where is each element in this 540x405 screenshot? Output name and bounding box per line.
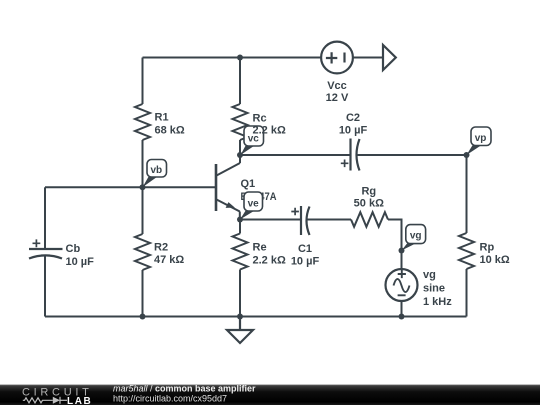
capacitor C1 (301, 206, 310, 235)
wire R1 column top (142, 58, 144, 105)
svg-text:10 µF: 10 µF (291, 256, 320, 268)
svg-text:Cb: Cb (66, 243, 81, 255)
svg-text:vg: vg (423, 269, 436, 281)
capacitor C2 (351, 139, 360, 171)
svg-text:10 µF: 10 µF (66, 256, 95, 268)
svg-text:Rc: Rc (253, 113, 267, 125)
svg-text:C1: C1 (298, 243, 312, 255)
junction bottom rail / vg source (399, 314, 405, 320)
svg-text:mar5hall / common base amplifi: mar5hall / common base amplifier (113, 383, 256, 393)
resistor Rc (233, 104, 248, 140)
node vc tag (241, 126, 264, 155)
resistor R1 (135, 104, 150, 140)
junction base node vb (140, 184, 146, 190)
svg-text:1 kHz: 1 kHz (423, 296, 452, 308)
resistor Rp (459, 233, 474, 269)
svg-text:R1: R1 (155, 112, 169, 124)
wire Re column bottom (239, 270, 241, 317)
logo mini circuit resistor and diode (23, 397, 67, 404)
svg-text:2.2 kΩ: 2.2 kΩ (253, 125, 286, 137)
svg-text:R2: R2 (154, 242, 168, 254)
svg-text:12 V: 12 V (326, 92, 349, 104)
resistor R2 (135, 234, 150, 270)
node vg tag (402, 225, 426, 251)
svg-text:68 kΩ: 68 kΩ (155, 125, 185, 137)
resistor Re (233, 234, 248, 270)
wire R2 column bottom (142, 270, 144, 317)
wire vp column (466, 155, 468, 233)
wire R2 column top (142, 187, 144, 234)
node vp tag (467, 127, 492, 155)
footer bar (0, 385, 540, 405)
wire Re column top (239, 220, 241, 234)
svg-text:Rg: Rg (361, 186, 376, 198)
wire source to bottom rail (401, 301, 403, 317)
svg-text:vb: vb (150, 165, 162, 176)
svg-text:Vcc: Vcc (327, 80, 347, 92)
junction top rail / Rc column (237, 55, 243, 61)
wire base row (45, 186, 216, 188)
wire Cb column bottom (44, 256, 46, 317)
svg-text:LAB: LAB (67, 396, 92, 405)
wire C2 to vp corner (357, 154, 467, 156)
svg-text:vp: vp (475, 133, 487, 144)
junction node vp (464, 152, 470, 158)
wire bottom rail (45, 316, 467, 318)
wire Rc column top (239, 58, 241, 105)
wire Vcc to flag (353, 57, 383, 59)
svg-text:10 kΩ: 10 kΩ (480, 254, 510, 266)
capacitor Cb (29, 249, 63, 259)
voltage source Vcc (321, 42, 353, 74)
wire Rc to collector node (239, 140, 241, 155)
svg-text:Re: Re (253, 242, 267, 254)
wire Rg to vg corner (388, 220, 402, 251)
capacitor Cb plus sign (33, 239, 41, 247)
svg-text:C2: C2 (346, 112, 360, 124)
svg-text:ve: ve (248, 199, 260, 210)
wire C1 to Rg (307, 219, 351, 221)
wire vg to source (401, 251, 403, 270)
wire Rp column bottom (466, 269, 468, 317)
node ve tag (240, 192, 263, 220)
svg-text:47 kΩ: 47 kΩ (154, 254, 184, 266)
svg-text:sine: sine (423, 283, 445, 295)
wire collector row to C2 (240, 154, 351, 156)
svg-text:Rp: Rp (480, 242, 495, 254)
node vb tag (143, 160, 167, 188)
junction bottom rail / R2 (140, 314, 146, 320)
voltage source vg sine (386, 269, 418, 301)
svg-text:Q1: Q1 (241, 178, 256, 190)
transistor Q1 (216, 155, 240, 220)
resistor Rg (351, 212, 388, 227)
svg-text:vg: vg (410, 231, 422, 242)
capacitor C1 plus sign (291, 208, 299, 216)
wire Cb column top (44, 187, 46, 249)
capacitor C2 plus sign (341, 160, 349, 168)
wire R1 column bottom (142, 140, 144, 187)
svg-text:50 kΩ: 50 kΩ (354, 198, 384, 210)
net flag arrow (383, 45, 396, 70)
wire top rail (143, 57, 322, 59)
junction collector node vc (237, 152, 243, 158)
wire emitter row to C1 (240, 219, 301, 221)
junction bottom rail / Re (237, 314, 243, 320)
junction node vg (399, 248, 405, 254)
svg-text:2.2 kΩ: 2.2 kΩ (253, 255, 286, 267)
junction emitter node ve (237, 217, 243, 223)
svg-text:10 µF: 10 µF (339, 125, 368, 137)
svg-text:http://circuitlab.com/cx95dd7: http://circuitlab.com/cx95dd7 (113, 394, 227, 404)
ground (227, 317, 253, 344)
